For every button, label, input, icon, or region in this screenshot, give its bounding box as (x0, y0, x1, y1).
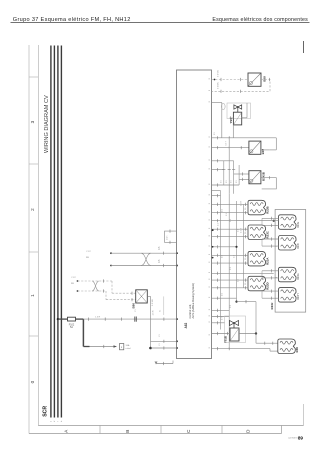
bus tap junction (57, 318, 59, 320)
wire upper feed right (83, 318, 176, 320)
trunk verticals cluster (223, 161, 225, 185)
wires A62 to cluster (212, 160, 234, 162)
svg-text:5A: 5A (70, 326, 73, 329)
left band section ticks (29, 76, 38, 78)
ECU A62 box (177, 70, 212, 359)
wire pair1 line2 (110, 265, 112, 267)
wire bus to fuse (58, 318, 68, 320)
junction dots on trunk (235, 246, 237, 248)
svg-text:B96: B96 (132, 303, 136, 309)
valve Y81B solenoid box (230, 328, 239, 341)
aux vertical wire (163, 296, 165, 315)
pin blobs A62 left edge (176, 318, 178, 320)
sensor B98 box (248, 73, 261, 86)
Y90 wiring (229, 117, 233, 119)
fuse F102 (68, 317, 76, 321)
svg-text:R23D: R23D (265, 282, 269, 289)
wire stub below A62 (156, 363, 173, 365)
svg-text:SCR: SCR (43, 406, 49, 417)
header rule (11, 22, 310, 24)
svg-text:2.5 R: 2.5 R (241, 201, 243, 206)
twisted pair symbol pair1 (141, 253, 151, 265)
heater R23G (279, 267, 297, 282)
heater R23E (279, 215, 297, 230)
pins pair1 (163, 252, 165, 255)
wire pair2 line1 (77, 280, 79, 282)
wires A62 pins right side (212, 195, 221, 197)
B96 right wire down to node (147, 295, 150, 297)
A62 pin wire y102 (212, 102, 222, 104)
arrow marker (114, 345, 117, 348)
svg-text:3: 3 (30, 120, 35, 123)
svg-text:2.5 R: 2.5 R (241, 228, 243, 233)
bus line 1 (50, 46, 52, 418)
heater R23F (279, 236, 297, 251)
box heater feed wires (237, 220, 279, 222)
thick branch to right (83, 346, 89, 348)
svg-text:R23C: R23C (265, 230, 269, 238)
wire pair2 steps to B96 (111, 281, 113, 293)
valve Y90 solenoid box (233, 112, 241, 125)
svg-text:A62: A62 (184, 322, 188, 328)
svg-text:B142B: B142B (262, 172, 266, 181)
jumper loop on A62 left pins (165, 231, 177, 242)
svg-text:0.5 SB: 0.5 SB (152, 299, 154, 306)
heater R23B (248, 200, 266, 215)
svg-text:Y81B: Y81B (224, 336, 228, 343)
B142B right loop under box (261, 178, 276, 189)
Y81B wiring (212, 333, 231, 335)
heater R23C (248, 225, 266, 240)
edge junction dots right (212, 229, 214, 231)
svg-text:R23H: R23H (297, 293, 300, 300)
heater R23H (279, 288, 297, 303)
svg-text:0.5 Y: 0.5 Y (226, 140, 228, 145)
sensor B96 box (136, 290, 148, 303)
svg-text:R23A: R23A (265, 257, 269, 265)
valve Y90 butterfly (234, 105, 242, 109)
wire node up-branch to A62 pin1 (151, 340, 177, 342)
heater R36 (278, 339, 296, 354)
wire A62 to R36 bottom (212, 348, 271, 350)
heater R23D (248, 276, 266, 291)
sensor B142B box (249, 171, 261, 184)
link V3 bottom to Y81B node vertical (237, 301, 257, 303)
svg-text:R23E: R23E (297, 221, 300, 228)
svg-text:R23G: R23G (297, 273, 300, 280)
frame outer left border (28, 45, 30, 434)
trunk vertical V3 (236, 201, 238, 302)
frame right border bottom segment (303, 404, 305, 426)
wire node to A62 pin2 (151, 347, 177, 349)
svg-text:34A: 34A (126, 344, 130, 347)
svg-text:0.5 GN: 0.5 GN (218, 70, 220, 77)
svg-text:ACS (AdBlue Dosing System): ACS (AdBlue Dosing System) (191, 283, 195, 319)
svg-text:R23F: R23F (297, 242, 300, 249)
heater pin ticks (245, 203, 247, 206)
svg-text:89: 89 (298, 436, 304, 441)
svg-text:Y90: Y90 (229, 118, 233, 124)
sensor B97 box (249, 141, 261, 154)
junction node (149, 347, 152, 350)
B98 return dashed path (212, 80, 271, 92)
inline connector marks (134, 317, 136, 322)
bus line 4 (60, 46, 62, 418)
svg-text:WIRING DIAGRAM CV: WIRING DIAGRAM CV (44, 95, 50, 153)
svg-text:cabel: cabel (126, 348, 132, 350)
svg-text:B97: B97 (261, 148, 265, 154)
lower feed wire (90, 346, 117, 348)
svg-text:1.5 R: 1.5 R (95, 317, 101, 319)
wire A62 to B97 loop (212, 137, 277, 139)
svg-text:Esquemas elétricos dos compone: Esquemas elétricos dos componentes (212, 17, 308, 23)
svg-text:0.5 BN: 0.5 BN (218, 82, 220, 89)
svg-text:R23J: R23J (270, 302, 274, 309)
svg-text:2: 2 (30, 208, 35, 211)
wire pair2 line2 (77, 290, 79, 292)
bus line 2 (53, 46, 55, 418)
svg-text:0: 0 (30, 380, 35, 383)
hanging connector symbol (222, 103, 226, 109)
node to R36 (255, 334, 257, 344)
trunk vertical V1 (220, 191, 222, 330)
thick branch down (82, 319, 84, 346)
heater R23A (248, 251, 266, 266)
Y90 bottom drop (232, 125, 234, 138)
frame bottom inner border (38, 425, 303, 427)
cable ref box 34A (120, 344, 124, 350)
wires cluster to B142B (234, 173, 249, 175)
svg-text:Grupo 37 Esquema elétrico FM,: Grupo 37 Esquema elétrico FM, FH, NH12 (13, 17, 131, 23)
svg-text:wd 80370: wd 80370 (288, 438, 298, 440)
svg-text:1: 1 (30, 294, 35, 297)
frame band right step (281, 426, 283, 434)
svg-text:R23B: R23B (265, 206, 269, 213)
trunk vertical V4 (243, 205, 245, 289)
frame bottom outer border (29, 433, 282, 435)
svg-text:R36: R36 (295, 347, 299, 353)
bottom band column ticks (99, 426, 101, 434)
box R23J (275, 210, 306, 313)
wire pair1 line1 (110, 252, 112, 254)
A62 pin wire to B98 (214, 79, 216, 81)
svg-text:1.5 R: 1.5 R (153, 310, 155, 315)
bus line 3 (57, 46, 59, 418)
valve Y81B butterfly (230, 321, 239, 326)
crossing verticals for box heaters (261, 218, 263, 225)
frame inner left border (37, 45, 39, 426)
wire fuse out (76, 318, 84, 320)
trunk vertical V2 (228, 194, 230, 349)
wire A62 to Y81B top (212, 322, 225, 324)
Y90 enclosure (227, 103, 251, 119)
twisted pair symbol pair2 (92, 281, 99, 291)
Y81B enclosure (225, 316, 246, 343)
svg-text:term: term (166, 235, 169, 240)
node up from Y81B (255, 302, 257, 334)
svg-text:B98: B98 (263, 76, 267, 82)
wire A62 to B97 left pin (212, 147, 249, 149)
svg-text:B: B (125, 430, 130, 433)
frame right border top tick (303, 41, 305, 53)
